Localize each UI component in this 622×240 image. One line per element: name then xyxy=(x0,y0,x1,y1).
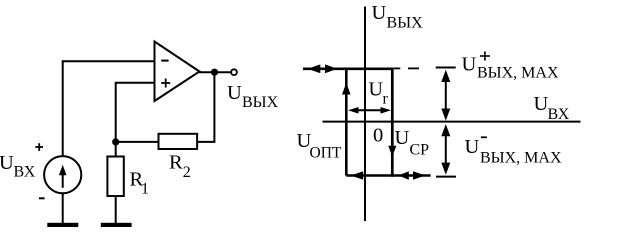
label U+ВЫХ,MAX xyxy=(462,51,559,81)
arrowhead bottom-right pointing right xyxy=(413,171,425,180)
tick at +UВЫХ,MAX level xyxy=(436,67,456,69)
ground under source xyxy=(47,223,78,227)
svg-text:U: U xyxy=(534,93,549,115)
plus sign at non-inverting input xyxy=(161,79,170,88)
ground under R1 xyxy=(101,223,132,227)
wire R1 to ground xyxy=(115,196,117,224)
label UВЫХ at output xyxy=(227,82,279,111)
wire node A to R1 xyxy=(115,142,117,157)
axis label UВЫХ xyxy=(372,2,424,32)
axis label UВХ xyxy=(534,93,570,123)
horizontal axis UВХ xyxy=(323,121,581,123)
arrowhead top-left pointing left xyxy=(308,64,321,73)
down arrow on right branch xyxy=(388,146,396,157)
svg-text:U: U xyxy=(0,152,14,174)
svg-text:2: 2 xyxy=(183,164,191,181)
up arrow on left branch xyxy=(342,83,351,95)
dashed level extension xyxy=(394,67,419,69)
svg-text:ВЫХ, MAX: ВЫХ, MAX xyxy=(477,65,559,82)
output terminal open circle xyxy=(231,69,237,75)
svg-text:0: 0 xyxy=(373,125,383,147)
svg-text:r: r xyxy=(383,91,389,108)
label U-ВЫХ,MAX xyxy=(465,136,562,167)
plus polarity mark xyxy=(35,143,43,151)
lower measurement arrow xyxy=(441,124,450,175)
vertical axis UВЫХ xyxy=(364,7,366,222)
svg-text:U: U xyxy=(227,82,242,104)
svg-text:ВЫХ, MAX: ВЫХ, MAX xyxy=(480,150,562,167)
hysteresis bottom level line xyxy=(346,174,430,177)
svg-text:ВЫХ: ВЫХ xyxy=(242,94,279,111)
label R1 xyxy=(130,169,150,198)
wire from source bottom to ground xyxy=(62,193,64,223)
wire R2 to output node xyxy=(197,72,214,142)
svg-text:ВХ: ВХ xyxy=(548,106,570,123)
label Ur xyxy=(369,79,389,108)
Ur measurement arrow xyxy=(348,107,391,114)
arrowhead bottom-left pointing left xyxy=(351,171,363,180)
svg-text:U: U xyxy=(465,136,480,158)
minus polarity mark xyxy=(39,197,45,199)
output node junction dot xyxy=(211,69,218,76)
upper measurement arrow xyxy=(441,70,450,121)
svg-text:U: U xyxy=(372,2,387,24)
label UВХ xyxy=(0,152,36,181)
hysteresis right vertical branch xyxy=(391,68,394,177)
svg-text:1: 1 xyxy=(141,181,149,198)
svg-text:ВЫХ: ВЫХ xyxy=(387,15,424,32)
label UСР xyxy=(395,127,430,159)
resistor R1 xyxy=(107,157,123,197)
svg-text:ОПТ: ОПТ xyxy=(310,145,342,162)
resistor R2 xyxy=(159,134,198,149)
voltage source UВХ circle xyxy=(44,156,81,193)
hysteresis left vertical branch xyxy=(345,69,348,176)
arrowhead bottom-right pointing left xyxy=(398,171,408,180)
svg-text:R: R xyxy=(169,152,183,174)
output wire from op-amp apex xyxy=(199,71,231,73)
svg-text:U: U xyxy=(395,127,410,149)
label UОПТ xyxy=(297,130,342,162)
arrowhead top-left pointing right xyxy=(325,64,337,73)
arrow inside source xyxy=(59,165,67,188)
svg-text:U: U xyxy=(369,79,384,101)
hysteresis top level line xyxy=(303,68,394,71)
label R2 xyxy=(169,152,191,181)
minus sign at inverting input xyxy=(161,60,168,62)
op-amp triangle xyxy=(155,42,200,102)
svg-text:U: U xyxy=(462,54,477,76)
node A junction dot xyxy=(112,138,119,145)
wire node A to R2 xyxy=(116,141,159,143)
tick at -UВЫХ,MAX level xyxy=(436,176,456,178)
wire node A to non-inverting input xyxy=(116,83,155,142)
svg-text:ВХ: ВХ xyxy=(14,164,36,181)
wire from source top to inverting input xyxy=(63,61,155,156)
svg-text:СР: СР xyxy=(410,142,430,159)
